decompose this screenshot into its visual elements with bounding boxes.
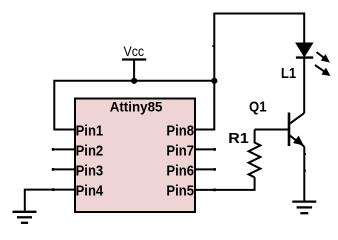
svg-text:Attiny85: Attiny85 xyxy=(110,99,163,115)
svg-text:Pin5: Pin5 xyxy=(166,184,194,200)
svg-text:Q1: Q1 xyxy=(249,99,267,115)
svg-text:L1: L1 xyxy=(281,66,296,82)
svg-text:Pin8: Pin8 xyxy=(166,123,194,139)
svg-text:Vcc: Vcc xyxy=(124,44,145,60)
svg-text:Pin3: Pin3 xyxy=(76,163,104,179)
svg-text:Pin6: Pin6 xyxy=(166,163,194,179)
svg-text:Pin7: Pin7 xyxy=(166,143,194,159)
svg-text:Pin1: Pin1 xyxy=(76,123,104,139)
svg-text:R1: R1 xyxy=(228,131,248,147)
svg-text:Pin4: Pin4 xyxy=(76,184,104,200)
svg-text:Pin2: Pin2 xyxy=(76,143,104,159)
